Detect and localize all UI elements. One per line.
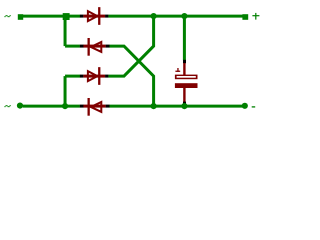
terminal AC input 1 (square pad) [18,14,23,20]
label ~ (AC input 2) [4,105,10,107]
wire top rail left (AC1 to D1 anode) [23,15,81,18]
capacitor C1 polarity + mark [175,68,180,72]
label - (negative output) [252,106,256,107]
wire bottom rail left (AC2 to D4) [23,105,80,108]
junction (crossover to top rail) [151,13,157,19]
wire D3 cathode to top rail (crossover diagonal) [108,16,153,76]
label ~ (AC input 1) [4,15,10,17]
junction node AC1 (square style) [63,13,70,20]
diode D3 (AC2 anode, cathode to +) [80,67,109,85]
wire top rail right (D1 cathode to + terminal) [108,15,242,18]
wire D3 row down to node AC2 [64,76,67,106]
junction (capacitor - lead to bottom rail) [181,103,187,109]
label + (positive output) [252,13,259,20]
terminal AC input 2 (round pad) [17,103,23,109]
junction (crossover to bottom rail) [151,103,157,109]
junction (capacitor + lead to top rail) [181,13,187,19]
wire top rail down to capacitor C1 [183,16,186,60]
terminal - output (round pad) [242,103,248,109]
wire D2 anode to bottom rail (crossover diagonal) [109,46,153,106]
diode D4 (cathode to AC2, anode to -) [80,98,110,116]
diode D2 (cathode to AC1, anode to -) [80,38,110,56]
capacitor C1 (polarized smoothing capacitor) [175,60,198,105]
diode D1 (AC1 anode, cathode to +) [80,7,109,25]
wire node AC1 down to D2 row [64,16,67,46]
wire bottom rail right (D4 to - terminal) [109,105,244,108]
junction node AC2 [62,103,68,109]
wire D3 row left segment [65,75,80,78]
terminal + output (square pad) [242,14,248,20]
wire D2 row left segment [65,45,80,48]
